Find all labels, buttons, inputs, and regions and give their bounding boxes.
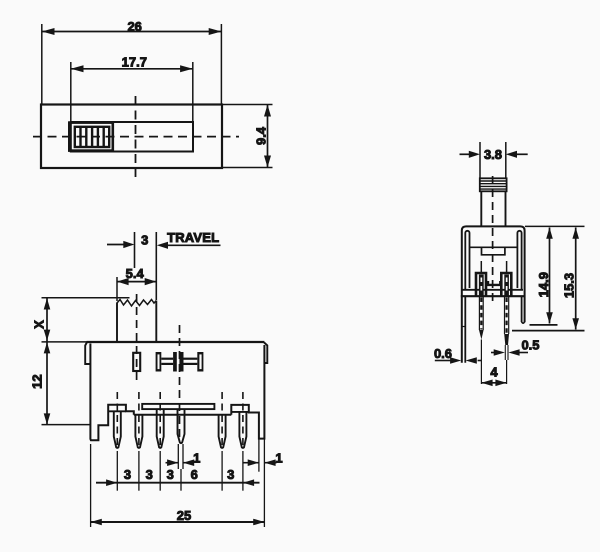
svg-text:25: 25 bbox=[177, 508, 191, 523]
svg-text:14.9: 14.9 bbox=[536, 272, 551, 297]
svg-text:3.8: 3.8 bbox=[484, 147, 502, 162]
svg-text:15.3: 15.3 bbox=[561, 273, 576, 298]
svg-text:TRAVEL: TRAVEL bbox=[167, 230, 219, 245]
svg-text:12: 12 bbox=[30, 374, 45, 388]
svg-text:3: 3 bbox=[167, 467, 174, 482]
svg-text:3: 3 bbox=[227, 467, 234, 482]
svg-text:4: 4 bbox=[490, 365, 498, 380]
svg-text:6: 6 bbox=[191, 467, 198, 482]
svg-text:9.4: 9.4 bbox=[254, 126, 269, 145]
svg-text:X: X bbox=[32, 320, 47, 329]
svg-text:17.7: 17.7 bbox=[122, 55, 147, 70]
svg-text:1: 1 bbox=[193, 451, 200, 466]
svg-text:0.5: 0.5 bbox=[521, 338, 539, 353]
svg-text:5.4: 5.4 bbox=[126, 266, 145, 281]
svg-text:26: 26 bbox=[127, 19, 141, 34]
svg-text:3: 3 bbox=[141, 232, 148, 247]
svg-text:3: 3 bbox=[124, 467, 131, 482]
svg-text:1: 1 bbox=[275, 451, 282, 466]
svg-text:3: 3 bbox=[146, 467, 153, 482]
svg-text:0.6: 0.6 bbox=[434, 346, 452, 361]
